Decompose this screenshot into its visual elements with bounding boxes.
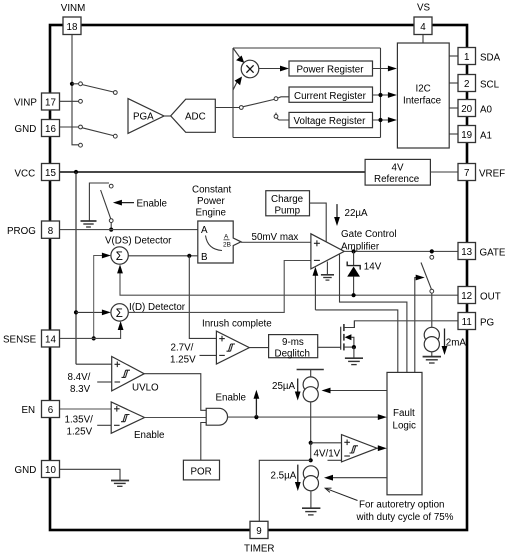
svg-text:Power: Power bbox=[197, 196, 226, 207]
svg-text:18: 18 bbox=[67, 22, 78, 33]
ground (2mA source) bbox=[423, 357, 441, 363]
wire: contact to Voltage Register bbox=[277, 118, 289, 120]
block: Fault Logic bbox=[387, 372, 422, 494]
svg-text:OUT: OUT bbox=[480, 292, 501, 303]
arrow: 22uA current bbox=[334, 204, 368, 226]
summer I(D) sigma circle bbox=[111, 304, 128, 321]
svg-text:14: 14 bbox=[45, 335, 56, 346]
gate discharge switch arm bbox=[421, 263, 431, 290]
pin 17 VINP bbox=[14, 93, 60, 110]
pin 12 OUT bbox=[458, 287, 501, 304]
svg-text:For autoretry option: For autoretry option bbox=[359, 500, 445, 511]
svg-text:2B: 2B bbox=[223, 242, 231, 249]
wire: OUT line from elbow to pin 12 bbox=[120, 288, 458, 295]
svg-text:Fault: Fault bbox=[393, 408, 415, 419]
enable switch arm bbox=[101, 190, 111, 219]
wire: stub to top mux contact bbox=[72, 83, 79, 85]
pin 20 A0 bbox=[458, 100, 493, 117]
svg-text:I(D) Detector: I(D) Detector bbox=[129, 302, 186, 313]
svg-text:2.7V/: 2.7V/ bbox=[171, 343, 194, 354]
pin 9 TIMER bbox=[244, 521, 274, 554]
block: 9-ms Deglitch bbox=[269, 335, 318, 360]
svg-text:B: B bbox=[201, 252, 208, 263]
svg-text:11: 11 bbox=[462, 317, 472, 328]
pin 18 VINM bbox=[61, 3, 86, 35]
wire+arrow: fault logic to 25uA control bbox=[322, 388, 388, 394]
svg-text:Deglitch: Deglitch bbox=[275, 349, 310, 360]
current source 2.5uA bbox=[303, 466, 318, 491]
mux arm2 end circle bbox=[113, 134, 117, 138]
svg-text:Power Register: Power Register bbox=[297, 65, 365, 76]
wire+arrow: VCC rail into I(D) sigma bbox=[76, 310, 111, 316]
block: Power Register bbox=[289, 61, 373, 76]
svg-text:Constant: Constant bbox=[192, 185, 231, 196]
svg-text:VINM: VINM bbox=[61, 3, 86, 14]
block: 4V Reference bbox=[365, 159, 430, 185]
pin 19 A1 bbox=[458, 126, 492, 143]
wire: I2C to A0 bbox=[449, 107, 458, 109]
pin 15 VCC bbox=[15, 164, 60, 181]
wire: amp feedback to fault logic bbox=[315, 310, 397, 373]
comparator: UVLO bbox=[112, 357, 145, 391]
pin 4 VS bbox=[414, 3, 432, 35]
node: dot on PROG line bbox=[109, 228, 113, 232]
pin 1 SDA bbox=[458, 48, 501, 65]
arrow into sigma1 bottom bbox=[117, 264, 123, 288]
wire: 25uA down to timer node bbox=[310, 402, 312, 443]
svg-text:10: 10 bbox=[45, 465, 56, 476]
svg-text:VS: VS bbox=[417, 3, 431, 14]
arrow: feedback into amp bottom bbox=[313, 267, 319, 310]
svg-text:Logic: Logic bbox=[393, 421, 417, 432]
wire: PROG line pin8 to CPE A input bbox=[60, 229, 198, 231]
wire: VCC rail down bbox=[75, 172, 77, 364]
node: dot on AND output bbox=[254, 415, 258, 419]
wire+arrow: timer comparator to fault logic bbox=[377, 445, 387, 451]
svg-text:Current Register: Current Register bbox=[294, 91, 367, 102]
svg-text:Enable: Enable bbox=[134, 430, 165, 441]
wire: VINP pin 17 stub bbox=[60, 100, 79, 102]
svg-text:6: 6 bbox=[48, 405, 54, 416]
svg-text:50mV max: 50mV max bbox=[252, 232, 299, 243]
wire: amp enable from fault logic bbox=[340, 255, 407, 373]
pin 2 SCL bbox=[458, 75, 500, 92]
svg-text:with duty cycle of 75%: with duty cycle of 75% bbox=[356, 512, 454, 523]
svg-text:2.5µA: 2.5µA bbox=[271, 471, 297, 482]
svg-text:12: 12 bbox=[461, 291, 472, 302]
pin 14 SENSE bbox=[3, 330, 60, 347]
svg-text:1.25V: 1.25V bbox=[67, 427, 93, 438]
transistor: PG pull-down MOSFET bbox=[341, 321, 355, 351]
svg-text:14V: 14V bbox=[364, 262, 382, 273]
mux contact circle top (VINM) bbox=[79, 82, 83, 86]
svg-text:8.3V: 8.3V bbox=[70, 384, 91, 395]
wire: rail down from B dot to inrush plus bbox=[189, 256, 216, 339]
arrow into sigma1 left bbox=[102, 253, 111, 259]
wire: gate amp internal ground stub bbox=[326, 262, 328, 275]
comparator: Enable bbox=[111, 402, 144, 433]
wire: I2C to A1 bbox=[449, 133, 458, 135]
label: 4V/1V thresholds bbox=[314, 449, 342, 461]
comparator: inrush complete bbox=[216, 331, 249, 364]
svg-text:PGA: PGA bbox=[133, 112, 154, 123]
svg-text:ADC: ADC bbox=[185, 112, 206, 123]
wire: I2C to SDA bbox=[449, 55, 458, 57]
label: 1.35V/1.25V thresholds bbox=[65, 415, 112, 438]
wire: contact to Current Register bbox=[278, 97, 289, 98]
svg-text:25µA: 25µA bbox=[272, 381, 296, 392]
pin 10 GND bbox=[15, 461, 60, 478]
label: 2.7V/1.25V thresholds bbox=[170, 343, 216, 366]
svg-text:A0: A0 bbox=[480, 105, 493, 116]
wire: EN line pin 6 to enable comparator bbox=[60, 408, 112, 410]
node: VCC rail dot bbox=[74, 170, 78, 174]
annotation: autoretry note with pointer bbox=[325, 488, 454, 523]
summer V(DS) sigma circle bbox=[111, 247, 128, 264]
svg-text:SCL: SCL bbox=[480, 80, 500, 91]
label: Gate Control Amplifier bbox=[341, 229, 397, 253]
svg-text:9: 9 bbox=[256, 526, 261, 537]
mux switch arm 2 bbox=[82, 128, 113, 136]
current source 25uA with rail tick bbox=[297, 370, 324, 402]
node: dot gate discharge switch bbox=[430, 249, 434, 253]
wire: 4V Reference to VREF pin 7 bbox=[430, 171, 458, 173]
svg-text:16: 16 bbox=[45, 124, 56, 135]
svg-text:Charge: Charge bbox=[271, 194, 304, 205]
node: dot voltage register feedback bbox=[378, 118, 382, 122]
selector contact circle voltage with tick bbox=[274, 113, 278, 119]
node: dot on SENSE line bbox=[92, 336, 96, 340]
multiplier X circle bbox=[241, 60, 259, 78]
node: dot timer comparator plus bbox=[309, 441, 313, 445]
svg-text:7: 7 bbox=[464, 168, 469, 179]
wire+arrow: Current Register to I2C bbox=[373, 92, 397, 98]
node: dot at B branch bbox=[187, 254, 191, 258]
svg-text:19: 19 bbox=[461, 130, 472, 141]
svg-text:Reference: Reference bbox=[374, 174, 420, 185]
label: 8.4V/8.3V thresholds bbox=[68, 372, 112, 395]
svg-text:9-ms: 9-ms bbox=[282, 337, 304, 348]
wire: 2mA source to ground bbox=[431, 352, 433, 357]
svg-text:8.4V/: 8.4V/ bbox=[68, 372, 91, 383]
node: dot zener to OUT line bbox=[352, 293, 356, 297]
wire: deglitch to FET gate bbox=[318, 346, 341, 348]
wire: TIMER pin 9 to timer node bbox=[259, 460, 310, 521]
wire: VCC rail elbow to UVLO plus bbox=[76, 363, 112, 365]
svg-text:I2C: I2C bbox=[416, 84, 431, 95]
svg-text:SDA: SDA bbox=[480, 53, 501, 64]
svg-text:Gate Control: Gate Control bbox=[341, 229, 397, 240]
enable switch: ground branch bbox=[89, 183, 109, 221]
pin 16 GND bbox=[15, 120, 60, 137]
wire: POR to AND input 3 bbox=[201, 423, 206, 461]
svg-text:22µA: 22µA bbox=[345, 208, 369, 219]
block: POR bbox=[183, 460, 219, 480]
block: Voltage Register bbox=[289, 112, 373, 127]
wire: measurement loop right vertical bbox=[380, 48, 382, 138]
selector common contact circle bbox=[239, 106, 243, 110]
svg-text:1: 1 bbox=[464, 52, 469, 63]
node: dot on VCC rail at I(D) branch bbox=[74, 310, 78, 314]
svg-text:EN: EN bbox=[22, 405, 36, 416]
svg-text:Inrush complete: Inrush complete bbox=[202, 319, 272, 330]
wire: PG line bbox=[354, 321, 458, 328]
wire: measurement loop top bbox=[233, 47, 381, 49]
wire: CPE output to gate amp plus bbox=[241, 241, 311, 243]
svg-text:VCC: VCC bbox=[15, 169, 36, 180]
svg-text:17: 17 bbox=[45, 98, 56, 109]
gate discharge switch bottom contact bbox=[430, 289, 434, 293]
node: dot at zener top bbox=[352, 249, 356, 253]
wire: GND pin 10 to ground bbox=[60, 469, 121, 480]
ground (GND pin) bbox=[111, 481, 129, 487]
gate: AND bbox=[206, 408, 227, 425]
svg-text:A1: A1 bbox=[480, 131, 492, 142]
wire: 2.5uA to ground bbox=[310, 491, 312, 508]
svg-text:GND: GND bbox=[15, 124, 37, 135]
block: Current Register bbox=[289, 87, 373, 102]
wire: inrush comp to deglitch bbox=[249, 347, 268, 349]
op-amp: gate control amplifier bbox=[311, 234, 344, 269]
ground (2.5uA source) bbox=[302, 508, 320, 515]
arrow: 2mA direction bbox=[442, 329, 467, 356]
wire: SENSE line from pin 14 bbox=[60, 328, 121, 339]
mux contact circle bottom bbox=[79, 143, 83, 147]
comparator: 4V/1V timer bbox=[342, 435, 378, 462]
ADC block bbox=[171, 99, 216, 132]
svg-text:20: 20 bbox=[461, 104, 472, 115]
selector switch arm bbox=[243, 99, 274, 106]
svg-text:13: 13 bbox=[461, 247, 472, 258]
wire: ADC output to selector bbox=[215, 107, 239, 109]
wire: AND output to fault logic bbox=[228, 414, 387, 420]
wire+arrow: Voltage Register to I2C bbox=[373, 117, 397, 123]
svg-text:V(DS) Detector: V(DS) Detector bbox=[105, 236, 172, 247]
node: VINM junction dot bbox=[70, 82, 74, 86]
svg-text:4V/1V: 4V/1V bbox=[314, 449, 341, 460]
wire: switch bottom to PROG line bbox=[110, 222, 112, 229]
device outline border bbox=[50, 25, 467, 530]
arrow into multiplier from bottom wire bbox=[233, 77, 242, 91]
wire: measurement loop bottom bbox=[233, 137, 381, 139]
current source 2mA bbox=[424, 327, 439, 352]
svg-text:Interface: Interface bbox=[403, 96, 442, 107]
ground (enable switch) bbox=[81, 221, 97, 227]
wire: GND pin 16 stub bbox=[60, 126, 79, 128]
block: Charge Pump bbox=[266, 191, 310, 217]
node: dot FET source bbox=[352, 345, 356, 349]
svg-text:Enable: Enable bbox=[137, 199, 168, 210]
wire: sigma2 output to gate amp minus bbox=[128, 261, 311, 313]
arrow into sigma2 bottom bbox=[118, 321, 124, 330]
svg-text:A: A bbox=[201, 225, 208, 236]
arrow+label: Enable pointing at switch arm bbox=[113, 199, 168, 210]
wire: VCC line pin15 to 4V Reference bbox=[60, 171, 366, 173]
ground (gate amplifier) bbox=[321, 275, 334, 280]
svg-text:PROG: PROG bbox=[7, 226, 36, 237]
svg-text:VREF: VREF bbox=[479, 169, 505, 180]
arrow: Enable signal up bbox=[216, 390, 260, 417]
svg-text:Engine: Engine bbox=[196, 208, 227, 219]
svg-text:4V: 4V bbox=[392, 163, 404, 174]
block: Constant Power Engine bbox=[198, 221, 241, 263]
pin 13 GATE bbox=[458, 243, 506, 260]
wire+arrow: X to Power Register bbox=[259, 66, 289, 72]
svg-text:POR: POR bbox=[191, 467, 212, 478]
node: dot current register feedback bbox=[378, 93, 382, 97]
zener diode 14V gate clamp bbox=[347, 251, 381, 295]
wire: enable comp output to AND input 2 bbox=[145, 417, 207, 419]
svg-text:TIMER: TIMER bbox=[244, 544, 274, 555]
svg-text:PG: PG bbox=[480, 318, 494, 329]
amplifier PGA bbox=[128, 99, 164, 134]
svg-text:15: 15 bbox=[45, 168, 56, 179]
ground (FET source) bbox=[345, 358, 363, 364]
svg-text:1.25V: 1.25V bbox=[170, 355, 196, 366]
svg-text:Enable: Enable bbox=[216, 393, 247, 404]
arrow into multiplier from top wire bbox=[233, 48, 244, 63]
mux contact circle GND bbox=[79, 125, 83, 129]
label: Constant Power Engine bbox=[192, 185, 231, 219]
wire+arrow: Power Register to I2C bbox=[373, 66, 397, 72]
arrow: 2.5uA direction bbox=[271, 465, 301, 491]
block: I2C Interface bbox=[397, 43, 449, 148]
mux switch arm 1 bbox=[82, 85, 113, 92]
wire: VS pin 4 to I2C bbox=[422, 35, 424, 44]
enable switch bottom contact circle bbox=[109, 219, 113, 223]
pin 8 PROG bbox=[7, 221, 60, 238]
wire: FET source to ground bbox=[353, 347, 355, 358]
selector contact circle current bbox=[274, 97, 278, 101]
svg-text:2mA: 2mA bbox=[446, 338, 467, 349]
wire: UVLO output to AND input 1 bbox=[144, 374, 206, 411]
svg-text:1.35V/: 1.35V/ bbox=[65, 415, 94, 426]
mux contact circle VINP bbox=[79, 99, 83, 103]
enable switch top contact circle bbox=[109, 184, 113, 188]
svg-text:Σ: Σ bbox=[116, 308, 123, 320]
svg-text:GATE: GATE bbox=[480, 248, 506, 259]
mux arm1 end circle bbox=[113, 91, 117, 95]
wire: switch control from fault logic bbox=[415, 275, 425, 373]
wire: PGA to ADC bbox=[164, 115, 171, 117]
wire: charge pump to gate amp top bbox=[310, 203, 327, 242]
wire: sigma1 output to CPE B bbox=[128, 255, 198, 257]
wire: VINM vertical from pin 18 bbox=[72, 35, 79, 145]
pin 11 PG bbox=[458, 313, 494, 330]
svg-text:VINP: VINP bbox=[14, 98, 37, 109]
wire: rail from SENSE up to sigma1 arrow bbox=[94, 256, 104, 339]
node: dot timer line bbox=[309, 458, 313, 462]
svg-text:GND: GND bbox=[15, 465, 37, 476]
svg-text:Voltage Register: Voltage Register bbox=[294, 116, 367, 127]
svg-text:SENSE: SENSE bbox=[3, 335, 37, 346]
wire: measurement loop left vertical bbox=[232, 48, 234, 138]
svg-text:Σ: Σ bbox=[116, 251, 123, 263]
wire: switch bottom through OUT to 2mA source bbox=[431, 293, 433, 328]
svg-text:4: 4 bbox=[420, 22, 426, 33]
svg-text:2: 2 bbox=[464, 79, 469, 90]
gate discharge switch top contact bbox=[430, 255, 434, 259]
wire: timer node vertical bbox=[310, 443, 312, 461]
svg-text:Pump: Pump bbox=[275, 206, 301, 217]
wire: to 4V/1V comparator plus bbox=[311, 442, 342, 444]
wire: GATE line amp output to pin 13 bbox=[344, 250, 458, 252]
svg-text:UVLO: UVLO bbox=[132, 383, 159, 394]
pin 7 VREF bbox=[458, 164, 505, 181]
wire+arrow: fault logic to 2.5uA control bbox=[324, 475, 387, 481]
svg-text:8: 8 bbox=[48, 226, 54, 237]
pin 6 EN bbox=[22, 401, 60, 418]
wire: I2C to SCL bbox=[449, 82, 458, 84]
arrow: 25uA direction bbox=[272, 379, 301, 401]
